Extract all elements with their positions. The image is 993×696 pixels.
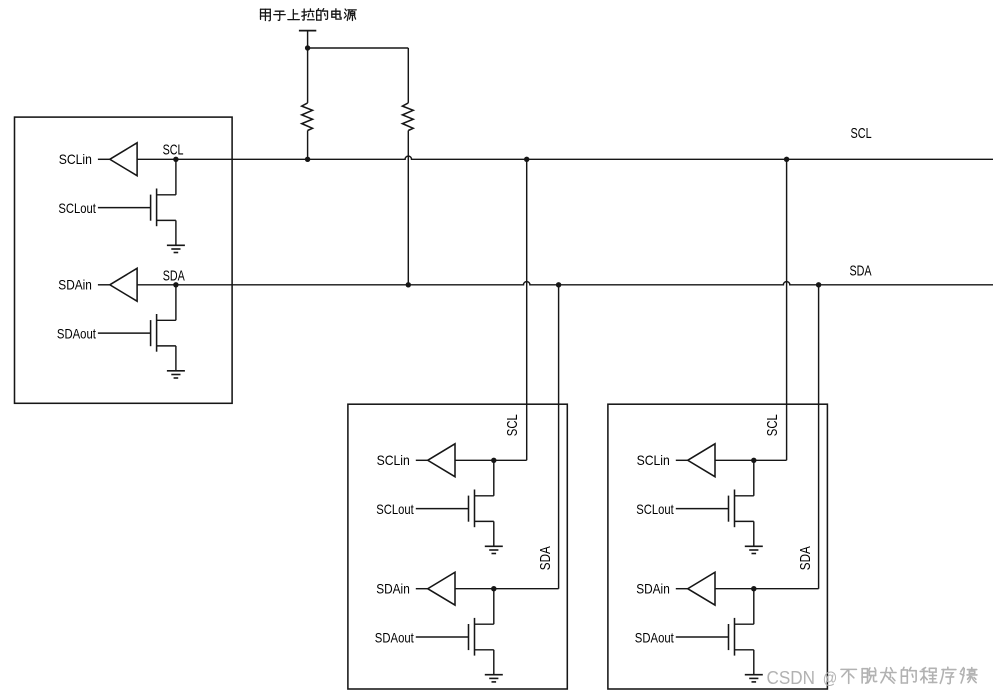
device box U2 (I2C device outline) [348, 404, 567, 689]
ground symbol under Q5 [745, 546, 763, 553]
wire: R1 bottom to SCL bus [307, 131, 309, 160]
device box U1 (I2C device outline) [15, 117, 233, 403]
svg-text:SCLin: SCLin [377, 452, 410, 468]
wire: Q2 source to ground [157, 346, 176, 371]
transistor Q6 (n-channel MOSFET) [729, 618, 735, 656]
svg-text:SCLin: SCLin [59, 151, 92, 167]
node: SCL bus tap U3 [784, 157, 789, 162]
svg-text:SCL: SCL [851, 126, 872, 142]
wire: SDAin to buffer U2 [416, 588, 428, 590]
wire: buffer to SCL node U2 [455, 459, 494, 461]
wire: Q4 source to ground [475, 650, 494, 675]
wire: SCLout to gate of Q5 [676, 508, 729, 510]
wire: SCL drop to U3 (vertical + corner) [754, 159, 787, 460]
wire: SDA drop to U3 (vertical + corner) [754, 285, 819, 589]
wire: SCLout to gate of Q1 [98, 207, 151, 209]
node: supply junction [305, 45, 310, 50]
op-amp buffer U3B (SDA input buffer) [688, 572, 715, 605]
power symbol VCC (supply bar) [299, 31, 316, 48]
svg-text:SDAin: SDAin [636, 581, 670, 597]
svg-text:SDA: SDA [798, 546, 814, 570]
wire: Q5 source to ground [735, 521, 754, 546]
resistor R2 (SDA pull-up) [402, 103, 413, 131]
wire: SCL bus line (with hop over R2 wire) [137, 156, 993, 159]
node: SDA bus tap U3 [816, 282, 821, 287]
node SCL junction U1 [173, 157, 178, 162]
wire: Q3 source to ground [475, 521, 494, 546]
wire: SDAout to gate of Q4 [416, 636, 469, 638]
wire: Q4 drain stub [475, 589, 494, 625]
wire: Q2 drain stub [157, 285, 176, 321]
ground symbol under Q4 [485, 675, 503, 682]
label: pull-up supply title (Chinese 用于上拉的电源) [261, 9, 271, 20]
transistor Q2 (n-channel MOSFET) [151, 314, 157, 352]
wire: Q1 source to ground [157, 220, 176, 245]
op-amp buffer U2A (SCL input buffer) [428, 444, 455, 477]
ground symbol under Q1 [167, 245, 185, 252]
transistor Q5 (n-channel MOSFET) [729, 490, 735, 528]
svg-text:SDA: SDA [163, 269, 185, 285]
wire: Q5 drain stub [735, 460, 754, 496]
wire: Q1 drain stub [157, 159, 176, 195]
svg-text:SCLin: SCLin [637, 452, 670, 468]
svg-text:CSDN: CSDN [767, 667, 816, 688]
wire: SCL drop to U2 (vertical + corner) [494, 159, 527, 460]
svg-text:SCLout: SCLout [58, 200, 96, 216]
svg-text:SDAout: SDAout [57, 326, 96, 342]
wire: supply to R1 top [307, 48, 309, 103]
svg-text:SCL: SCL [505, 414, 521, 436]
wire: Q3 drain stub [475, 460, 494, 496]
wire: SDAout to gate of Q2 [98, 332, 151, 334]
wire: Q6 source to ground [735, 650, 754, 675]
wire: SCLout to gate of Q3 [416, 508, 469, 510]
node: R2 to SDA [406, 282, 411, 287]
transistor Q4 (n-channel MOSFET) [469, 618, 475, 656]
wire: SCLin to buffer U1 [98, 158, 110, 160]
transistor Q1 (n-channel MOSFET) [151, 189, 157, 227]
device box U3 (I2C device outline) [608, 404, 828, 689]
svg-text:SDA: SDA [850, 263, 872, 279]
wire: SDA bus line (with hops over U2/U3 SCL drops) [137, 282, 993, 285]
svg-text:SDA: SDA [538, 546, 554, 570]
node SCL junction U3 [751, 458, 756, 463]
svg-text:SCLout: SCLout [376, 501, 414, 517]
node SCL junction U2 [491, 458, 496, 463]
wire: Q6 drain stub [735, 589, 754, 625]
svg-text:SCL: SCL [163, 143, 184, 159]
transistor Q3 (n-channel MOSFET) [469, 490, 475, 528]
wire: R2 bottom crossing SCL to SDA bus [407, 131, 409, 285]
node: SDA bus tap U2 [556, 282, 561, 287]
svg-text:SDAin: SDAin [376, 581, 410, 597]
svg-text:SCL: SCL [765, 414, 781, 436]
wire: buffer to SDA node U3 [715, 588, 754, 590]
wire: SDAout to gate of Q6 [676, 636, 729, 638]
node: SCL bus tap U2 [524, 157, 529, 162]
node SDA junction U3 [751, 586, 756, 591]
svg-text:SDAout: SDAout [375, 629, 414, 645]
wire: SDA drop to U2 (vertical + corner) [494, 285, 559, 589]
wire: supply rail to R2 [308, 47, 409, 49]
wire: SDAin to buffer U1 [98, 284, 110, 286]
wire: SCLin to buffer U2 [416, 459, 428, 461]
ground symbol under Q2 [167, 371, 185, 378]
op-amp buffer U2B (SDA input buffer) [428, 572, 455, 605]
wire: SCLin to buffer U3 [676, 459, 688, 461]
svg-text:SCLout: SCLout [636, 501, 674, 517]
node SDA junction U2 [491, 586, 496, 591]
wire: rail down to R2 top [407, 48, 409, 103]
wire: buffer to SCL node U3 [715, 459, 754, 461]
node SDA junction U1 [173, 282, 178, 287]
svg-text:SDAin: SDAin [58, 277, 92, 293]
ground symbol under Q6 [745, 675, 763, 682]
ground symbol under Q3 [485, 546, 503, 553]
svg-text:@: @ [823, 669, 838, 688]
op-amp buffer U1B (SDA input buffer) [110, 268, 137, 301]
wire: SDAin to buffer U3 [676, 588, 688, 590]
svg-text:SDAout: SDAout [635, 629, 674, 645]
op-amp buffer U1A (SCL input buffer) [110, 143, 137, 176]
op-amp buffer U3A (SCL input buffer) [688, 444, 715, 477]
resistor R1 (SCL pull-up) [302, 103, 313, 131]
node: R1 to SCL [305, 157, 310, 162]
wire: buffer to SDA node U2 [455, 588, 494, 590]
